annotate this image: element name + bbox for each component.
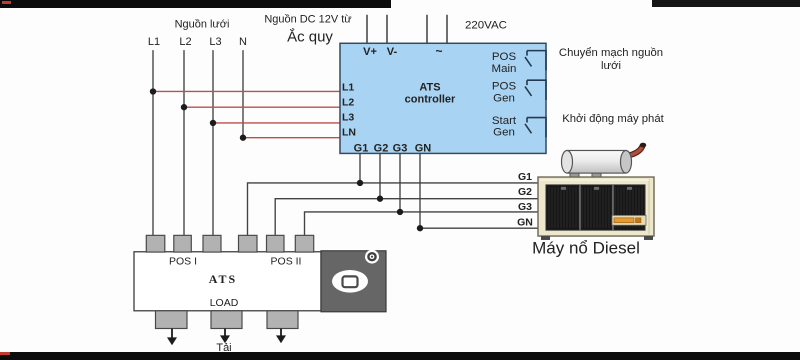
svg-text:Ắc quy: Ắc quy — [287, 27, 333, 45]
svg-text:Gen: Gen — [493, 92, 515, 104]
relay contact Start Gen — [525, 118, 546, 138]
svg-text:Chuyển mạch nguồn: Chuyển mạch nguồn — [559, 47, 663, 59]
svg-text:G1: G1 — [354, 143, 369, 155]
relay contact POS Main — [525, 51, 546, 71]
svg-text:Khởi động máy phát: Khởi động máy phát — [562, 113, 664, 125]
svg-text:ATS: ATS — [209, 272, 237, 286]
pin AC line 1 — [426, 15, 428, 44]
bottom black bar — [0, 352, 800, 360]
svg-text:L1: L1 — [342, 83, 354, 94]
generator body frame — [538, 177, 654, 236]
pin GN drop — [419, 153, 421, 228]
wire L1 vertical — [152, 50, 154, 236]
svg-text:Gen: Gen — [493, 127, 515, 139]
load arrow 2 — [224, 328, 226, 336]
svg-text:G2: G2 — [374, 143, 389, 155]
terminal POS I 3 — [203, 235, 221, 252]
terminal POS II 3 — [295, 235, 313, 252]
svg-text:G2: G2 — [518, 187, 532, 198]
wire L3 vertical — [212, 50, 214, 236]
exhaust pipe — [626, 146, 643, 156]
svg-text:POS: POS — [492, 81, 517, 93]
svg-text:POS II: POS II — [271, 257, 302, 268]
junction dot G3 — [397, 209, 403, 215]
load terminal 3 — [267, 311, 298, 329]
wire G1 horizontal — [248, 183, 540, 236]
tank feet — [570, 172, 579, 178]
wire G2 horizontal — [275, 199, 539, 236]
junction dot L2 — [181, 104, 187, 110]
svg-text:lưới: lưới — [601, 60, 621, 72]
terminal POS II 2 — [267, 235, 285, 252]
generator grille — [546, 185, 645, 230]
wire red L2 to controller — [184, 106, 340, 108]
svg-text:controller: controller — [405, 93, 456, 105]
junction dot N — [240, 135, 246, 141]
svg-text:L3: L3 — [209, 36, 221, 48]
pin G1 drop — [359, 153, 361, 183]
red tick top-left — [2, 1, 11, 4]
svg-text:L2: L2 — [179, 36, 191, 48]
control strip with orange bar — [612, 215, 646, 225]
load terminal 2 — [211, 311, 242, 329]
svg-text:G3: G3 — [393, 143, 408, 155]
ATS switch box — [134, 252, 321, 311]
wire G3 horizontal — [305, 212, 540, 236]
svg-text:V+: V+ — [363, 46, 377, 58]
relay contact POS Gen — [525, 80, 546, 100]
junction dot L3 — [210, 120, 216, 126]
pin G2 drop — [379, 153, 381, 198]
terminal POS I 1 — [146, 235, 165, 252]
tank body — [567, 150, 626, 173]
terminal POS I 2 — [174, 235, 192, 252]
svg-text:ATS: ATS — [419, 82, 440, 94]
svg-text:N: N — [239, 36, 247, 48]
junction dot GN — [417, 225, 423, 231]
generator feet — [541, 236, 550, 240]
load terminal 1 — [156, 311, 188, 329]
svg-text:220VAC: 220VAC — [465, 20, 507, 32]
wire red L1 to controller — [153, 90, 340, 92]
grille louvers — [549, 187, 642, 228]
load arrow 1 — [171, 328, 173, 338]
svg-text:Nguồn lưới: Nguồn lưới — [175, 19, 230, 31]
load arrow 3 — [280, 328, 282, 336]
svg-text:Nguồn DC 12V từ: Nguồn DC 12V từ — [264, 14, 351, 26]
svg-text:Máy nổ Diesel: Máy nổ Diesel — [532, 239, 640, 258]
terminal POS II 1 — [239, 235, 258, 252]
top-left black bar — [0, 0, 391, 8]
junction dot L1 — [150, 88, 156, 94]
svg-text:Main: Main — [492, 63, 517, 75]
wire red L3 to controller — [213, 122, 340, 124]
svg-text:POS I: POS I — [169, 257, 197, 268]
pin V+ line — [366, 15, 368, 44]
wire red N to controller — [243, 137, 340, 139]
red tick bottom-left — [0, 352, 10, 355]
svg-text:LN: LN — [342, 128, 356, 139]
grille top ticks — [561, 187, 566, 190]
wire N vertical — [242, 50, 244, 138]
wire GN horizontal — [420, 227, 539, 229]
svg-text:V-: V- — [387, 46, 398, 58]
top-right black bar — [652, 0, 800, 7]
svg-text:L2: L2 — [342, 98, 354, 109]
svg-text:Start: Start — [492, 115, 517, 127]
svg-text:LOAD: LOAD — [210, 298, 239, 309]
svg-text:POS: POS — [492, 51, 517, 63]
op ATS controller box U1 — [340, 43, 546, 153]
svg-text:L1: L1 — [148, 36, 160, 48]
pin AC line 2 — [446, 15, 448, 44]
svg-text:~: ~ — [435, 44, 442, 58]
motor actuator box — [321, 251, 386, 312]
pin V- line — [386, 15, 388, 44]
svg-text:G3: G3 — [518, 202, 532, 213]
pin G3 drop — [399, 153, 401, 212]
junction dot G1 — [357, 180, 363, 186]
svg-text:GN: GN — [517, 218, 533, 229]
svg-text:GN: GN — [415, 143, 432, 155]
wire L2 vertical — [183, 50, 185, 236]
frame bevel — [648, 179, 650, 234]
grille dividers — [579, 185, 581, 230]
svg-text:G1: G1 — [518, 172, 532, 183]
svg-text:L3: L3 — [342, 113, 354, 124]
junction dot G2 — [377, 196, 383, 202]
